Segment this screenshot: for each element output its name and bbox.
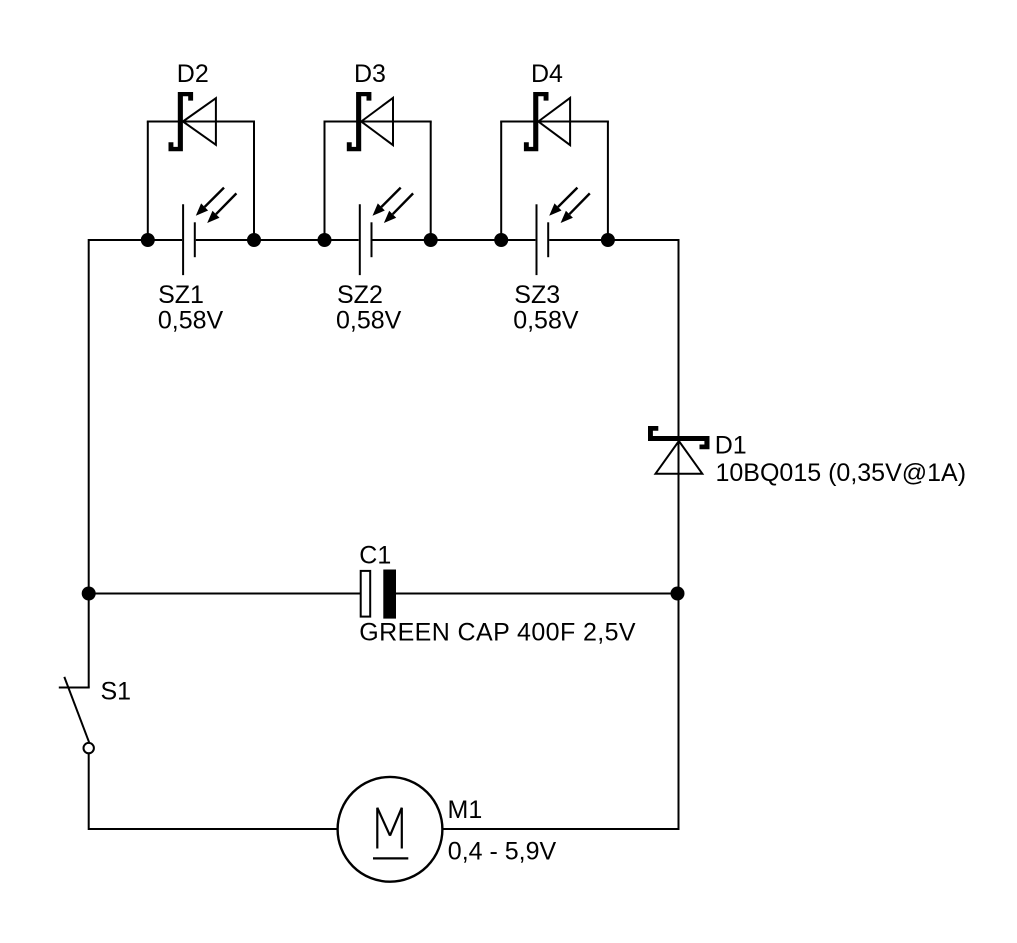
wire cell1 diode horizontal — [147, 121, 255, 123]
wire switch upper vertical — [88, 594, 90, 688]
svg-text:SZ1: SZ1 — [158, 281, 204, 309]
solar cell SZ1 light arrow 2 — [207, 193, 236, 223]
solar cell SZ3 plate long — [536, 204, 538, 275]
wire capacitor row right — [396, 593, 679, 595]
svg-text:D4: D4 — [531, 60, 563, 88]
solar cell SZ2 plate short — [371, 222, 373, 257]
wire cell1 loop left — [147, 122, 149, 241]
solar cell SZ1 light arrow 1 — [196, 188, 224, 216]
junction dot capacitor left — [82, 587, 96, 601]
wire right vertical — [678, 239, 680, 830]
junction dot cell1 left — [141, 233, 155, 247]
capacitor C1 plate left — [361, 571, 371, 617]
wire top bus segment 3 — [373, 239, 536, 241]
motor M1 — [338, 777, 443, 882]
svg-text:S1: S1 — [101, 678, 132, 706]
schottky diode D3 — [347, 92, 393, 151]
svg-text:0,58V: 0,58V — [158, 307, 224, 335]
wire cell3 loop right — [607, 122, 609, 241]
solar cell SZ1 plate long — [182, 204, 184, 275]
wire cell3 loop left — [500, 122, 502, 241]
svg-text:D2: D2 — [177, 60, 209, 88]
svg-text:D1: D1 — [715, 432, 747, 460]
wire left vertical — [88, 239, 90, 595]
svg-text:0,58V: 0,58V — [513, 307, 579, 335]
svg-text:D3: D3 — [354, 60, 386, 88]
switch S1 — [59, 677, 94, 753]
wire top bus segment 4 — [549, 239, 679, 241]
wire bottom left — [89, 828, 338, 830]
svg-text:0,58V: 0,58V — [336, 307, 402, 335]
wire cell3 diode horizontal — [500, 121, 609, 123]
wire bottom right — [443, 828, 680, 830]
solar cell SZ2 plate long — [359, 204, 361, 275]
wire cell2 loop left — [324, 122, 326, 241]
wire capacitor row left — [89, 593, 361, 595]
wire cell2 diode horizontal — [324, 121, 432, 123]
junction dot capacitor right — [671, 587, 685, 601]
capacitor C1 plate right — [383, 570, 396, 619]
svg-text:0,4 - 5,9V: 0,4 - 5,9V — [448, 837, 557, 865]
junction dot cell3 right — [601, 233, 615, 247]
schottky diode D2 — [169, 92, 216, 151]
svg-text:C1: C1 — [359, 541, 391, 569]
junction dot cell1 right — [247, 233, 261, 247]
wire switch lower vertical — [88, 753, 90, 830]
wire cell2 loop right — [430, 122, 432, 241]
svg-text:M1: M1 — [448, 796, 483, 824]
solar cell SZ2 light arrow 1 — [373, 188, 401, 216]
schottky diode D4 — [524, 92, 570, 151]
svg-text:SZ3: SZ3 — [514, 281, 560, 309]
svg-text:SZ2: SZ2 — [337, 281, 383, 309]
junction dot cell3 left — [494, 233, 508, 247]
solar cell SZ3 light arrow 2 — [561, 193, 590, 223]
junction dot cell2 left — [318, 233, 332, 247]
solar cell SZ2 light arrow 2 — [384, 193, 413, 223]
solar cell SZ3 plate short — [547, 222, 549, 257]
junction dot cell2 right — [424, 233, 438, 247]
svg-text:10BQ015 (0,35V@1A): 10BQ015 (0,35V@1A) — [716, 459, 967, 487]
schottky diode D1 — [648, 426, 710, 474]
wire cell1 loop right — [253, 122, 255, 241]
svg-text:GREEN CAP 400F 2,5V: GREEN CAP 400F 2,5V — [359, 619, 636, 647]
solar cell SZ1 plate short — [194, 222, 196, 257]
wire top bus segment 1 — [89, 239, 182, 241]
solar cell SZ3 light arrow 1 — [549, 188, 577, 216]
wire top bus segment 2 — [196, 239, 359, 241]
